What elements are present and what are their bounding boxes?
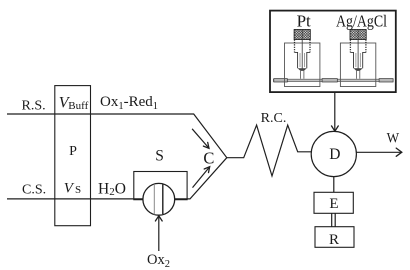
svg-text:Ox1-Red1: Ox1-Red1	[100, 94, 158, 112]
svg-text:Ag/AgCl: Ag/AgCl	[336, 11, 387, 30]
svg-text:W: W	[387, 131, 400, 147]
svg-text:D: D	[329, 146, 340, 163]
svg-text:Buff: Buff	[68, 100, 88, 112]
svg-text:C.S.: C.S.	[22, 182, 46, 197]
svg-text:S: S	[75, 184, 81, 196]
svg-text:S: S	[155, 147, 164, 164]
svg-text:R: R	[329, 232, 339, 248]
svg-text:P: P	[69, 144, 77, 159]
svg-text:E: E	[329, 196, 338, 212]
svg-text:R.S.: R.S.	[22, 99, 46, 114]
svg-text:R.C.: R.C.	[261, 111, 287, 126]
svg-text:Pt: Pt	[297, 11, 311, 30]
svg-text:C: C	[203, 148, 214, 167]
